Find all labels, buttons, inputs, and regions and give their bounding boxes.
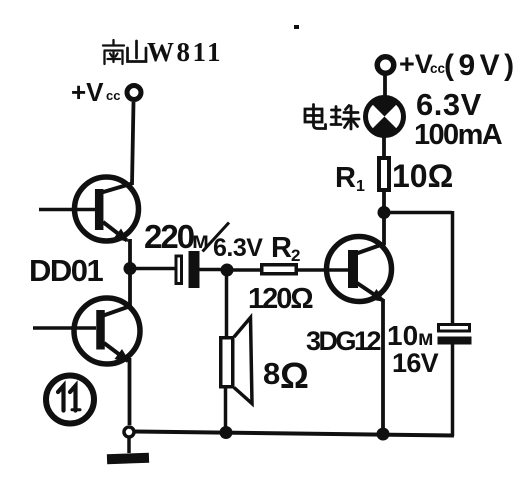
terminal +Vcc top-left	[127, 86, 141, 100]
svg-text:10: 10	[387, 320, 418, 351]
node: mid junction on left rail	[124, 262, 137, 275]
svg-text:R: R	[271, 232, 292, 264]
scan speck	[294, 25, 299, 29]
svg-text:3DG12: 3DG12	[306, 326, 381, 356]
wire: +Vcc terminal down to Q1 collector	[132, 102, 134, 185]
svg-text:W811: W811	[147, 37, 223, 67]
wire: speaker to bottom rail	[224, 388, 228, 428]
wire: C2 down to bottom rail	[451, 344, 455, 436]
wire: Q1 emitter to mid junction to Q2 collector	[128, 239, 132, 308]
node A (speaker / R2 junction)	[221, 264, 234, 277]
resistor R2	[262, 265, 297, 274]
slash separator	[203, 223, 230, 252]
wire: Q3 emitter down to bottom rail	[381, 299, 385, 433]
title 南 (hand-drawn glyph)	[103, 40, 124, 64]
node: speaker-bottom junction	[220, 426, 233, 439]
wire: node A down to speaker	[225, 276, 229, 337]
svg-text:8: 8	[263, 356, 280, 391]
svg-text:120Ω: 120Ω	[248, 283, 313, 315]
transistor Q2 (lower DD01)	[33, 298, 140, 364]
capacitor C2 10u/16V (electrolytic)	[439, 325, 470, 332]
wire: node A to R2	[232, 268, 261, 272]
wire: bottom rail	[135, 432, 454, 436]
terminal: bottom-left open node	[124, 427, 134, 437]
wire: C1 to node A	[200, 268, 223, 272]
node B (below R1)	[378, 206, 391, 219]
svg-text:DD01: DD01	[29, 253, 104, 288]
svg-text:16V: 16V	[392, 348, 439, 378]
svg-text:Ω: Ω	[280, 355, 309, 396]
node: emitter-bottom junction	[377, 428, 390, 441]
svg-text:+V: +V	[71, 77, 104, 107]
svg-text:R: R	[335, 162, 356, 194]
wire: Q2 emitter down to bottom terminal	[128, 358, 132, 425]
circuit number badge 11	[46, 376, 94, 424]
resistor R1	[379, 158, 389, 190]
capacitor C1 220u/6.3V (electrolytic)	[176, 256, 182, 284]
ground	[127, 438, 131, 453]
svg-text:220: 220	[144, 218, 194, 255]
svg-text:1: 1	[356, 178, 365, 195]
wire: node B to right rail	[390, 211, 452, 215]
wire: right rail down to capacitor C2	[451, 211, 455, 324]
svg-text:2: 2	[291, 246, 300, 265]
svg-text:(9V): (9V)	[444, 49, 519, 82]
label 珠 (hand-drawn glyph)	[331, 106, 359, 130]
transistor Q3 3DG12	[327, 237, 392, 303]
svg-text:6.3V: 6.3V	[213, 234, 263, 262]
svg-text:100mA: 100mA	[414, 119, 503, 151]
wire: R1 to node B	[382, 190, 386, 207]
terminal +Vcc(9V) top-right	[377, 57, 394, 74]
wire: node B to Q3 collector	[382, 218, 386, 245]
wire: mid junction to capacitor C1	[136, 267, 175, 271]
wire: terminal to lamp	[383, 75, 387, 97]
svg-text:м: м	[418, 327, 434, 350]
speaker LS 8 ohm	[221, 338, 233, 387]
transistor Q1 (upper DD01)	[39, 177, 139, 242]
svg-text:6.3V: 6.3V	[416, 87, 482, 122]
svg-text:+V: +V	[399, 49, 433, 79]
svg-text:10Ω: 10Ω	[392, 158, 453, 194]
svg-text:cc: cc	[106, 88, 120, 103]
lamp EL 电珠	[366, 97, 404, 137]
title 山 (hand-drawn glyph)	[128, 41, 147, 62]
wire: R2 to Q3 base	[298, 268, 348, 272]
label 电 (hand-drawn glyph)	[305, 105, 326, 129]
wire: lamp to R1	[382, 135, 386, 157]
